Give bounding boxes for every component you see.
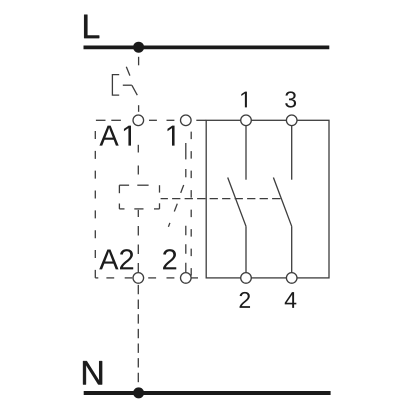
label A1 xyxy=(99,126,131,146)
label A2 xyxy=(99,249,133,269)
wire stub terminal 1 to contact block xyxy=(196,119,206,121)
terminal 1 (coil box) circle xyxy=(181,115,192,126)
node L label xyxy=(84,15,99,38)
wire dashed contact to terminal 2 xyxy=(185,226,187,272)
contact pole 1-2 wire bottom xyxy=(245,226,247,272)
mechanical link coil to contacts (dashed) xyxy=(161,198,282,200)
switch S1 blade (dashed, external control switch) xyxy=(126,67,137,95)
contact pole 1-2 wire top xyxy=(245,126,247,180)
wire dashed coil to A2 xyxy=(137,210,139,272)
terminal A2 circle xyxy=(133,273,144,284)
wire stub terminal 2 to contact block (dashed) xyxy=(191,277,198,279)
terminal A1 circle xyxy=(133,115,144,126)
contact pole 3-4 wire bottom xyxy=(291,226,293,272)
contact blade 1-2 dashed xyxy=(168,185,183,227)
label 2 (coil box) xyxy=(163,249,176,269)
label 4 (contact block) xyxy=(285,292,297,308)
wire dashed switch to terminal A1 xyxy=(138,105,140,112)
terminal 3 circle xyxy=(286,115,297,126)
terminal 2 (coil box) circle xyxy=(181,273,192,284)
wire N bus xyxy=(84,391,331,395)
label 1 (coil box) xyxy=(167,126,174,146)
contact block outline box xyxy=(206,120,329,278)
terminal 2 (contact block) circle xyxy=(241,273,252,284)
wire dashed terminal 1 down to contact xyxy=(185,143,187,177)
label 3 (contact block) xyxy=(285,91,296,107)
wire dashed A2 down to N xyxy=(137,285,139,386)
contactor K1 dashed outline box xyxy=(95,120,191,278)
contact pole 1-2 blade xyxy=(228,178,246,227)
label 2 (contact block) xyxy=(240,292,250,308)
terminal 4 circle xyxy=(286,273,297,284)
node junction dot on N xyxy=(133,387,144,398)
terminal 1 (contact block) circle xyxy=(241,115,252,126)
wire dashed A1 to coil xyxy=(137,145,139,175)
contact pole 3-4 blade xyxy=(273,178,291,227)
node junction dot on L xyxy=(133,42,144,53)
node N label xyxy=(83,361,102,384)
wire dashed drop from L to switch xyxy=(138,57,140,66)
label 1 (contact block) xyxy=(241,92,247,108)
coil K1 between A1 and A2 xyxy=(119,185,159,209)
wire L bus xyxy=(84,46,330,50)
contact pole 3-4 wire top xyxy=(291,126,293,180)
switch S1 manual actuator bracket xyxy=(112,75,119,96)
switch S1 actuator linkage xyxy=(123,84,132,86)
